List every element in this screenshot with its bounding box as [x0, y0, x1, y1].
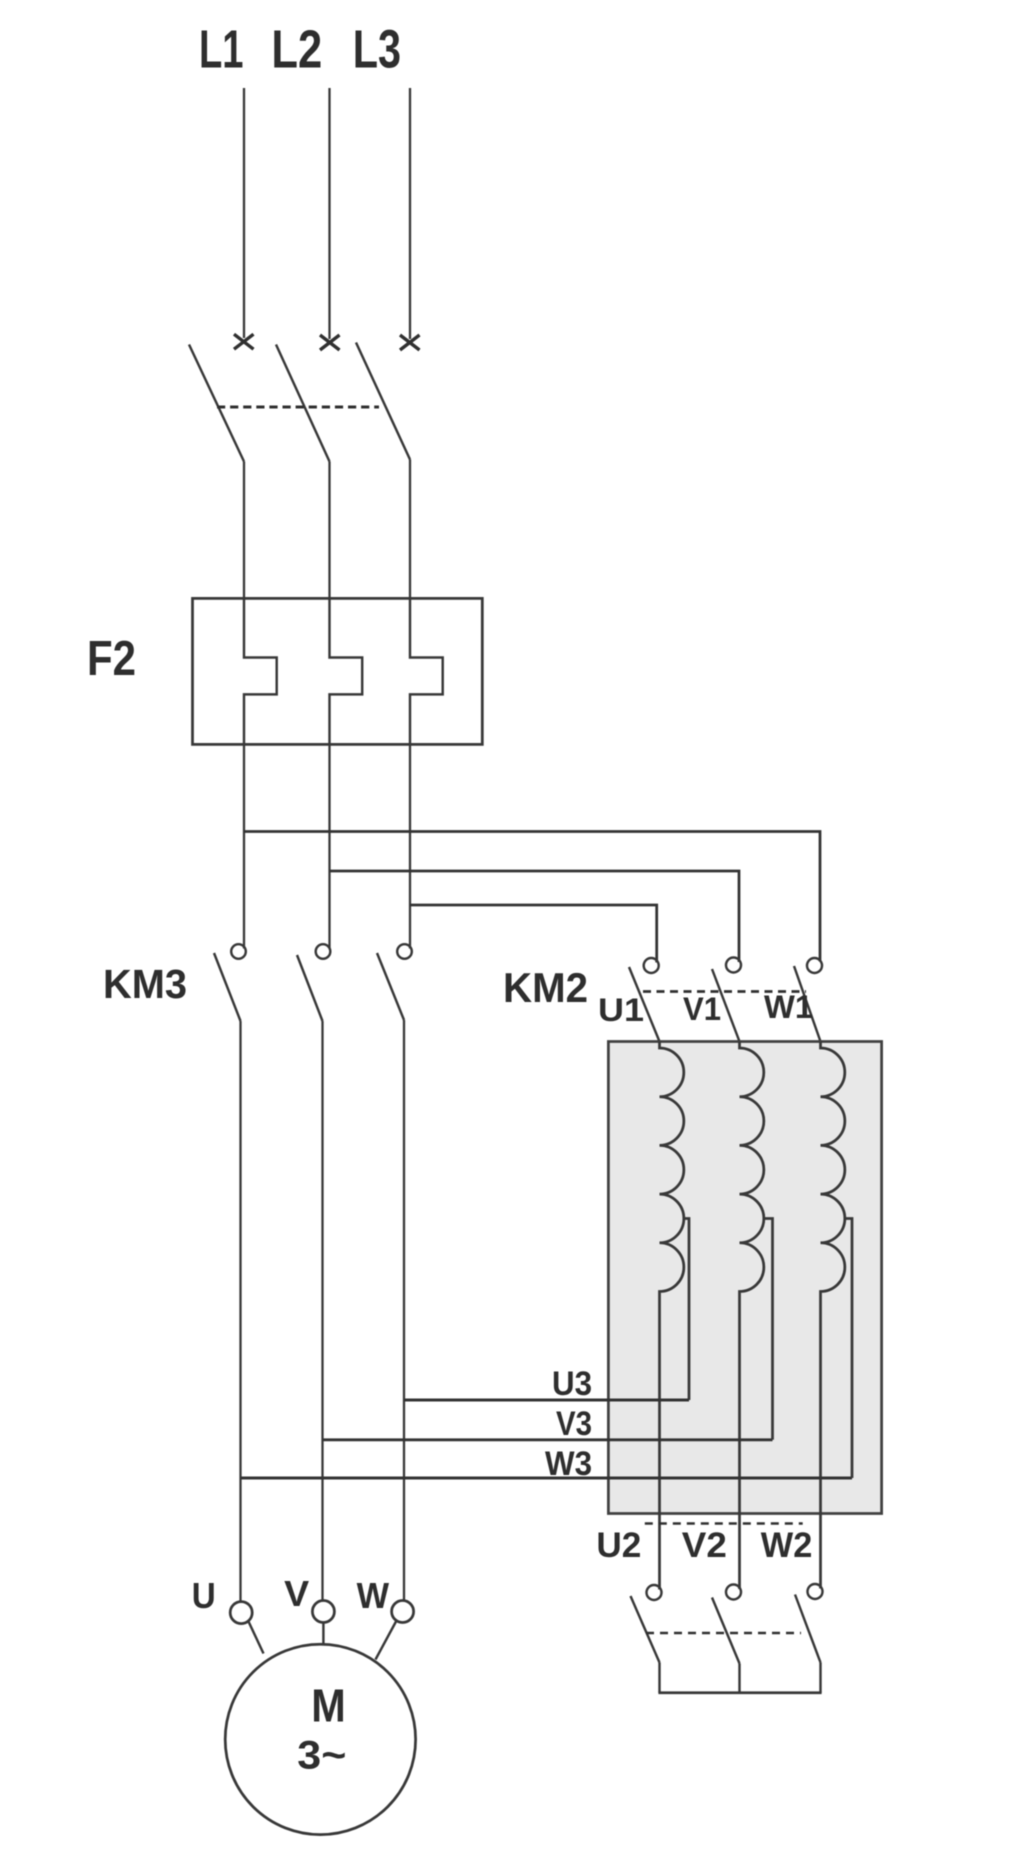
star contactor pole 3 contact circle [808, 1584, 823, 1599]
contactor KM3 pole 1 contact circle [231, 944, 246, 959]
svg-text:U: U [192, 1575, 216, 1616]
contactor KM2 pole 1 contact circle [644, 958, 659, 973]
svg-text:F2: F2 [87, 632, 136, 686]
overload relay F2 heater element pole 1 [244, 598, 277, 744]
wire pole1 switch to F2 [243, 462, 245, 600]
svg-text:V3: V3 [556, 1405, 592, 1443]
svg-text:V: V [284, 1573, 309, 1614]
wire W3 tap link [241, 1477, 853, 1480]
wire U3 tap link [404, 1399, 689, 1402]
svg-text:W2: W2 [761, 1526, 813, 1565]
terminal x-mark L2 [320, 335, 340, 350]
star contactor pole 3 blade [795, 1595, 821, 1663]
star contactor pole 1 contact circle [647, 1585, 662, 1600]
contactor KM2 mechanical link (dashed) [643, 990, 806, 993]
wire L2 supply drop [328, 88, 330, 339]
contactor KM3 pole 3 contact circle [397, 944, 412, 959]
wire KM3 pole2 to motor V [321, 1021, 323, 1601]
wire pole1 F2 to KM3 [243, 744, 245, 948]
terminal x-mark L1 [234, 334, 254, 349]
star contactor mechanical link lower (dashed) [646, 1632, 801, 1634]
autotransformer winding 3 [821, 1042, 845, 1589]
svg-text:3~: 3~ [297, 1734, 346, 1778]
wire KM3 pole1 to motor U [239, 1021, 241, 1602]
wire pole2 F2 to KM3 [328, 744, 330, 948]
wire star pole3 to bus [819, 1663, 821, 1693]
motor terminal V circle [312, 1601, 334, 1623]
contactor KM2 pole 2 contact circle [726, 958, 741, 973]
svg-text:U3: U3 [552, 1365, 592, 1403]
wire branch phase2 to KM2 pole2 [330, 871, 740, 962]
autotransformer T1 body [608, 1042, 881, 1514]
autotransformer winding 2 tap [764, 1219, 773, 1440]
contactor KM3 pole 2 blade [297, 955, 323, 1021]
disconnect switch Q1 blade pole 3 [356, 343, 410, 460]
star contactor pole 1 blade [631, 1596, 660, 1663]
wire star pole1 to bus [658, 1663, 660, 1693]
contactor KM2 pole 3 blade [794, 966, 821, 1042]
wire motor terminal W to motor [376, 1622, 397, 1660]
svg-text:V1: V1 [683, 991, 721, 1027]
contactor KM3 pole 2 contact circle [316, 944, 331, 959]
autotransformer winding 1 tap [684, 1219, 689, 1401]
svg-text:KM2: KM2 [503, 964, 588, 1011]
wire star pole2 to bus [738, 1664, 740, 1693]
svg-text:M: M [311, 1680, 346, 1732]
autotransformer winding 1 [660, 1042, 684, 1590]
wire KM3 pole3 to motor W [403, 1020, 405, 1601]
contactor KM2 pole 3 contact circle [807, 958, 822, 973]
svg-text:W1: W1 [764, 989, 813, 1025]
contactor KM3 pole 1 blade [214, 953, 241, 1021]
star contactor pole 2 blade [712, 1598, 740, 1664]
overload relay F2 heater element pole 2 [330, 598, 363, 744]
overload relay F2 box [193, 598, 483, 744]
autotransformer winding 3 tap [845, 1219, 852, 1479]
wire L3 supply drop [409, 88, 411, 339]
contactor KM2 pole 1 blade [629, 967, 660, 1042]
svg-text:L1: L1 [199, 20, 244, 80]
disconnect switch Q1 blade pole 1 [189, 345, 244, 462]
wire pole3 F2 to KM3 [409, 744, 411, 948]
contactor KM2 pole 2 blade [712, 969, 740, 1042]
motor M1 body circle [225, 1644, 415, 1834]
star contactor pole 2 contact circle [726, 1585, 741, 1600]
star contactor mechanical link upper (dashed) [645, 1522, 803, 1524]
wire V3 tap link [323, 1438, 773, 1441]
wire branch phase3 to KM2 pole1 [410, 905, 657, 963]
disconnect switch Q1 blade pole 2 [276, 345, 330, 462]
svg-text:KM3: KM3 [103, 961, 187, 1007]
wire L1 supply drop [243, 88, 245, 338]
motor terminal U circle [230, 1602, 252, 1624]
svg-text:L3: L3 [353, 20, 401, 80]
wire motor terminal U to motor [249, 1622, 264, 1654]
svg-text:U2: U2 [596, 1526, 641, 1565]
terminal x-mark L3 [400, 335, 420, 350]
wire motor terminal V to motor [322, 1623, 324, 1645]
wire pole2 switch to F2 [328, 462, 330, 600]
contactor KM3 pole 3 blade [377, 953, 404, 1020]
motor terminal W circle [392, 1601, 414, 1623]
wire pole3 switch to F2 [409, 460, 411, 600]
wire branch phase1 to KM2 pole3 [244, 832, 820, 962]
overload relay F2 heater element pole 3 [410, 598, 443, 744]
disconnect switch Q1 mechanical link (dashed) [217, 406, 379, 409]
svg-text:L2: L2 [271, 20, 322, 80]
wire star point bus [658, 1691, 821, 1694]
autotransformer winding 2 [740, 1042, 764, 1590]
svg-text:V2: V2 [682, 1526, 727, 1565]
svg-text:U1: U1 [598, 992, 644, 1028]
svg-text:W: W [357, 1575, 389, 1616]
